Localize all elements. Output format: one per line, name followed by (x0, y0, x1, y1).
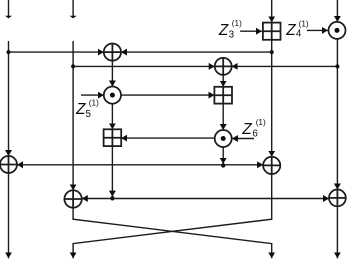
xor gate E2 (263, 157, 280, 174)
mod-add C (boxed plus) (214, 87, 232, 104)
svg-text:Z: Z (285, 22, 296, 39)
label Z6(1) (241, 118, 266, 140)
junction branch3/H1 (270, 50, 274, 54)
wire output 1 from xor E1 (8, 173, 10, 258)
svg-text:Z: Z (75, 101, 86, 118)
label Z5(1) (75, 98, 99, 120)
wire arrow Z4 label to multiplier (307, 29, 328, 31)
junction branch2/H2 (71, 64, 75, 68)
svg-text:(1): (1) (256, 118, 266, 127)
wire line F left into xor F1 (82, 198, 113, 200)
junction branch1/H1 (7, 50, 11, 54)
wire xor1 output down into mul Z5 (111, 61, 113, 87)
xor gate F1 (64, 190, 81, 207)
wire branch3 vertical from Z3 adder down to xor E2 (271, 40, 273, 157)
wire branch1 vertical (8, 41, 10, 156)
wire xor2 output down into mod-add C (222, 75, 224, 87)
wire line F right into xor F2 (112, 198, 329, 200)
junction branch4/H2 (335, 64, 339, 68)
wire arrow Z6 label to multiplier (232, 138, 254, 140)
wire branch4 top into mod-mul Z4 (336, 0, 338, 22)
svg-text:(1): (1) (89, 98, 99, 107)
wire H1 left segment into xor1 (9, 51, 104, 53)
wire mod-add D output down to junction on line F (111, 146, 113, 197)
wire mul Z6 output down to junction on line E (222, 147, 224, 164)
xor gate F2 (329, 190, 346, 207)
wire input stub branch2 (72, 0, 74, 16)
wire branch3 top into mod-add Z3 (271, 0, 273, 22)
svg-text:Z: Z (241, 121, 252, 138)
mod-add D (boxed plus) (104, 129, 122, 146)
svg-text:Z: Z (218, 22, 229, 39)
wire branch4 vertical from Z4 mul down to xor F2 (336, 39, 338, 190)
wire output 3 crossing path from xor F1 (73, 208, 272, 259)
wire branch2 vertical (72, 41, 74, 190)
junction line E / mul Z6 output (221, 163, 225, 167)
wire output 2 crossing path from xor E2 (73, 174, 272, 258)
wire H1 right segment into xor1 (121, 51, 272, 53)
xor gate 2 (215, 58, 232, 75)
wire output 4 from xor F2 (336, 206, 338, 258)
wire arrow Z3 label to adder (240, 30, 262, 32)
svg-text:5: 5 (86, 109, 92, 120)
wire mul Z6 output left into mod-add D (121, 137, 215, 139)
junction line F / mod-add D output (110, 196, 114, 200)
mod-mul U-Z4 (circled dot) (329, 22, 346, 39)
wire mul Z5 output right into mod-add C (121, 94, 214, 96)
wire H2 right segment into xor2 (232, 65, 338, 67)
wire input stub branch1 (8, 0, 10, 16)
svg-text:(1): (1) (299, 19, 309, 28)
wire mod-add C output down into mul Z6 (222, 104, 224, 130)
xor gate 1 (104, 44, 121, 61)
svg-text:4: 4 (296, 29, 302, 40)
svg-text:(1): (1) (232, 19, 242, 28)
wire mul Z5 output down into mod-add D (111, 104, 113, 130)
xor gate E1 (0, 156, 17, 173)
svg-text:3: 3 (229, 29, 235, 40)
mod-mul U-Z5 (circled dot) (104, 87, 121, 104)
mod-add U-Z3 (boxed plus) (263, 23, 281, 40)
wire arrow Z5 label to multiplier (81, 94, 104, 96)
mod-mul U-Z6 (circled dot) (215, 130, 232, 147)
wire line E right into xor E2 (223, 164, 263, 166)
wire line E left into xor E1 (17, 164, 223, 166)
wire H2 left segment into xor2 (73, 65, 215, 67)
label Z4(1) (285, 19, 309, 39)
label Z3(1) (218, 19, 242, 40)
svg-text:6: 6 (252, 129, 258, 140)
